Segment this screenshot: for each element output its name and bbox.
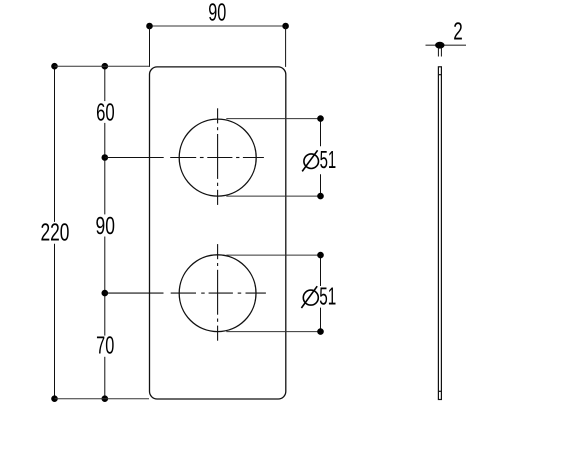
- bottom horizontal connector line at plate bottom level: [55, 398, 150, 400]
- svg-text:51: 51: [320, 147, 337, 174]
- dimension 2: extension ticks: [438, 48, 441, 57]
- diameter dim bottom hole: top dot: [317, 252, 324, 259]
- dimension 90 top: right dot: [282, 23, 289, 30]
- hole circle bottom: [179, 255, 256, 332]
- centerline horizontal top hole: [170, 157, 264, 159]
- diameter dim bottom hole: vertical line with text gap: [320, 255, 322, 332]
- diameter symbol bottom: circle: [303, 290, 318, 305]
- dimension 220: bottom dot: [51, 395, 58, 402]
- diameter symbol top: circle: [304, 154, 319, 169]
- chained dimension: dot at top: [102, 63, 109, 70]
- chained dimension: dot at bottom hole center: [102, 290, 109, 297]
- chained dimension: dot at top hole center: [102, 154, 109, 161]
- diameter dim bottom hole: bottom dot: [317, 328, 324, 335]
- diameter dim top hole: top leader: [226, 118, 320, 120]
- centerline vertical top hole: [217, 108, 219, 205]
- diameter symbol top: slash: [302, 150, 317, 171]
- svg-text:90: 90: [208, 0, 226, 27]
- dimension 90 top: right extension line: [285, 26, 287, 67]
- svg-text:60: 60: [96, 100, 115, 127]
- dimension 90 top: left extension line: [149, 26, 151, 67]
- dimension 90 top: left dot: [146, 23, 153, 30]
- leader from chained dim to bottom hole centerline: [105, 292, 164, 294]
- diameter dim top hole: bottom dot: [317, 193, 324, 200]
- svg-text:70: 70: [96, 333, 114, 360]
- diameter symbol bottom: slash: [301, 286, 317, 308]
- chained dimension: dot at bottom: [102, 395, 109, 402]
- top horizontal connector line at plate top level: [55, 65, 150, 67]
- svg-text:90: 90: [96, 213, 115, 240]
- diameter dim bottom hole: bottom leader: [226, 331, 320, 333]
- leader from chained dim to top hole centerline: [105, 157, 164, 159]
- svg-text:220: 220: [40, 219, 69, 246]
- svg-text:51: 51: [319, 284, 336, 311]
- side view plate body: [438, 67, 441, 400]
- centerline horizontal bottom hole: [171, 292, 266, 294]
- dimension 90 top: dimension line: [150, 25, 286, 27]
- diameter dim bottom hole: top leader: [226, 254, 320, 256]
- chained dimension 60/90/70: line segments with text gaps: [104, 66, 106, 399]
- svg-text:2: 2: [453, 19, 463, 46]
- dimension 2: merged dots: [435, 42, 444, 49]
- centerline vertical bottom hole: [217, 244, 219, 341]
- diameter dim top hole: bottom leader: [226, 195, 320, 197]
- diameter dim top hole: vertical line with text gap: [320, 119, 322, 197]
- front view plate outline: [150, 67, 286, 399]
- hole circle top: [179, 119, 256, 196]
- diameter dim top hole: top dot: [317, 115, 324, 122]
- dimension 220: top dot: [51, 63, 58, 70]
- dimension 2: dimension line: [426, 44, 467, 46]
- dimension 220: dimension line with text gap: [54, 66, 56, 399]
